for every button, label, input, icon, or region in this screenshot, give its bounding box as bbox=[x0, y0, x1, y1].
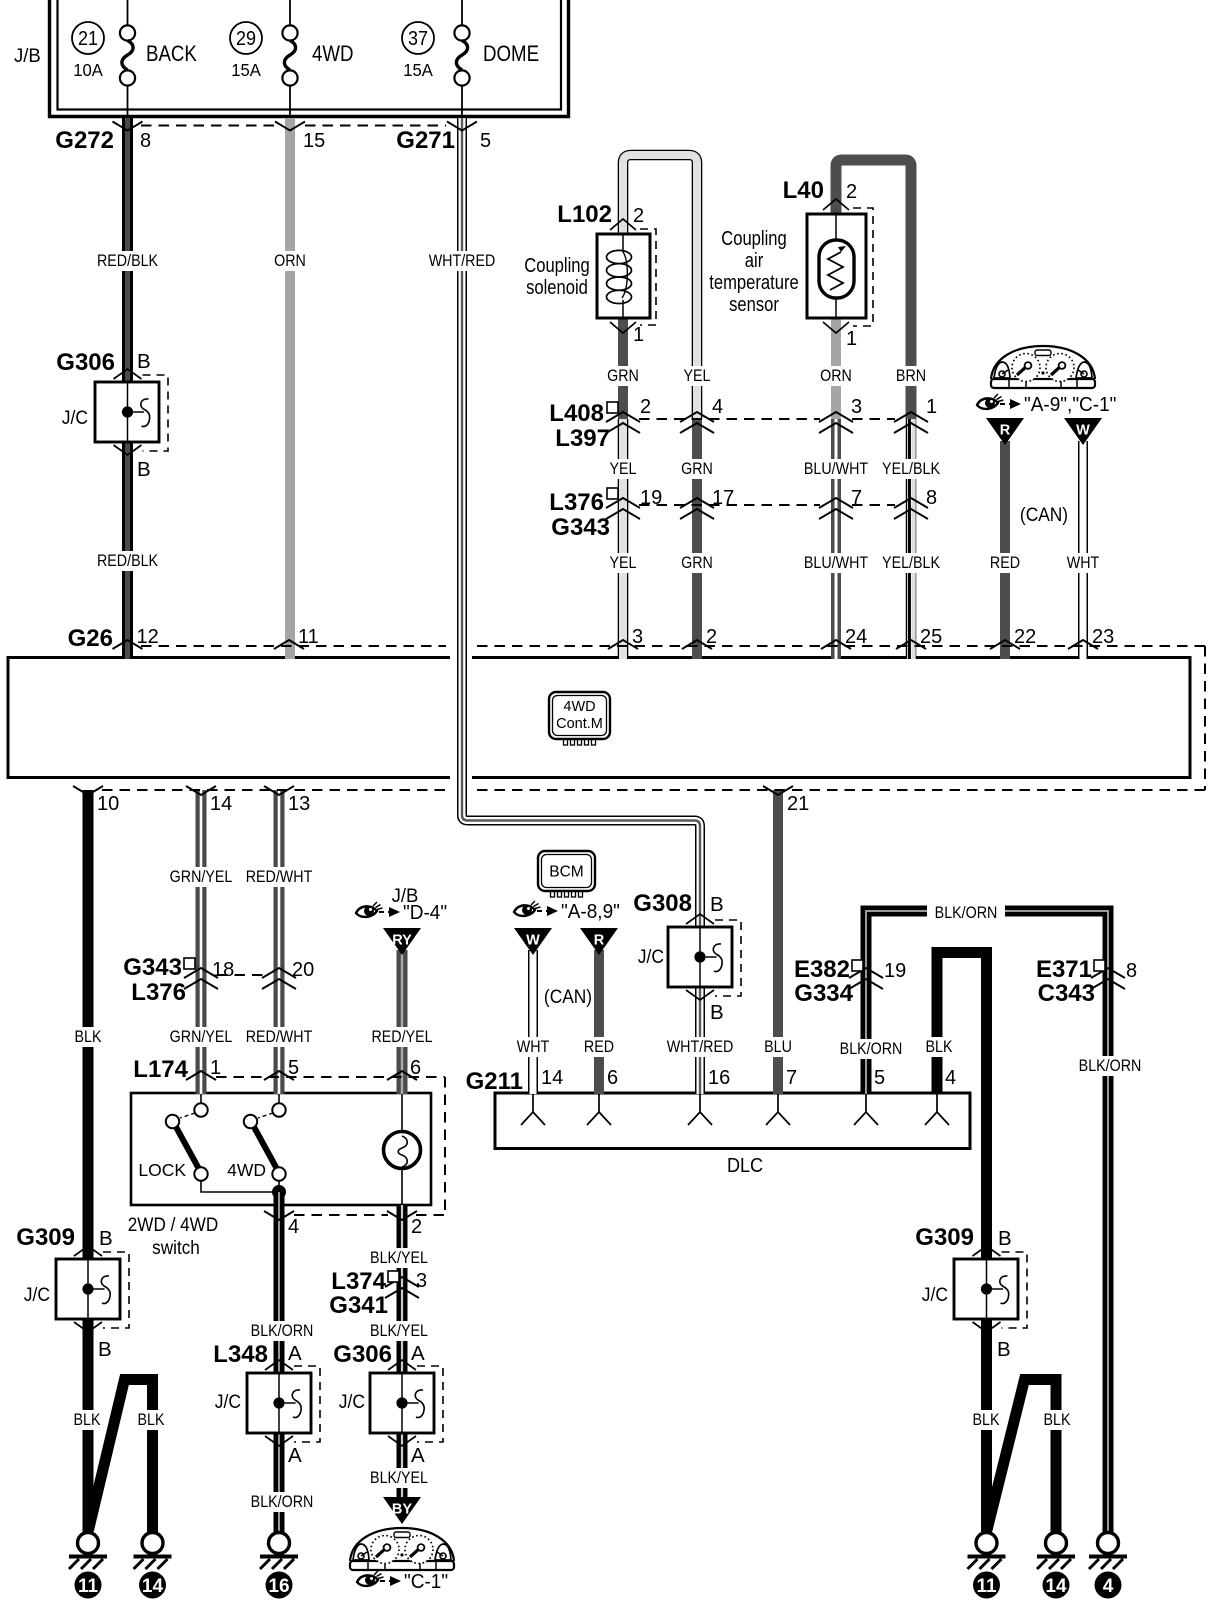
svg-text:B: B bbox=[997, 1338, 1011, 1361]
svg-text:20: 20 bbox=[292, 959, 314, 981]
svg-text:21: 21 bbox=[787, 793, 809, 815]
svg-text:19: 19 bbox=[640, 487, 662, 509]
wire label GRN/YEL lower bbox=[170, 1027, 233, 1047]
svg-text:ORN: ORN bbox=[820, 367, 852, 385]
svg-text:16: 16 bbox=[268, 1576, 289, 1597]
svg-text:BLK: BLK bbox=[926, 1038, 953, 1056]
connector G26 dashed boundary around module bbox=[102, 646, 1205, 790]
svg-text:2: 2 bbox=[633, 205, 644, 227]
connector L376 G343 pins 19 17 7 8 bbox=[549, 487, 937, 541]
wire BLK loop from DLC pin 4 to junction connector G309 and ground 11 bbox=[937, 953, 987, 1533]
svg-text:G272: G272 bbox=[55, 127, 114, 154]
wire label BRN above L408 bbox=[896, 366, 926, 386]
svg-text:37: 37 bbox=[408, 28, 428, 50]
svg-text:BLK/ORN: BLK/ORN bbox=[840, 1040, 903, 1058]
svg-text:L40: L40 bbox=[783, 177, 824, 204]
svg-text:11: 11 bbox=[78, 1576, 99, 1597]
svg-text:BACK: BACK bbox=[146, 43, 197, 67]
module pin 21 bbox=[763, 786, 809, 815]
svg-text:RY: RY bbox=[392, 933, 412, 949]
svg-text:22: 22 bbox=[1014, 626, 1036, 648]
svg-text:4WD: 4WD bbox=[563, 699, 595, 715]
svg-text:G334: G334 bbox=[794, 980, 853, 1007]
svg-text:air: air bbox=[745, 248, 763, 271]
svg-text:4WD: 4WD bbox=[227, 1160, 266, 1180]
coupling solenoid L102 bbox=[597, 219, 656, 333]
wire YEL/BLK from connector L408 pin 1 to module pin 25 bbox=[909, 419, 913, 659]
svg-text:4: 4 bbox=[288, 1216, 299, 1238]
4WD switch contact bbox=[227, 1093, 286, 1181]
wire GRN/YEL module pin 14 to switch pin 1 bbox=[196, 790, 207, 1094]
svg-text:WHT: WHT bbox=[1067, 554, 1100, 572]
svg-text:J/C: J/C bbox=[638, 945, 664, 967]
module pin 22 bbox=[990, 626, 1036, 649]
label Coupling air temperature sensor bbox=[709, 226, 798, 315]
svg-text:J/C: J/C bbox=[339, 1390, 365, 1412]
wire label BLK ground 11 right bbox=[972, 1410, 1001, 1430]
svg-text:BLK/YEL: BLK/YEL bbox=[370, 1249, 428, 1267]
svg-text:BLK/YEL: BLK/YEL bbox=[370, 1469, 428, 1487]
svg-text:WHT/RED: WHT/RED bbox=[429, 252, 496, 270]
svg-text:19: 19 bbox=[884, 960, 906, 982]
DLC internal branch pin bbox=[854, 1094, 878, 1125]
wire label BLK at DLC pin 4 loop bbox=[925, 1037, 954, 1057]
svg-text:BLU/WHT: BLU/WHT bbox=[804, 460, 869, 478]
svg-text:6: 6 bbox=[410, 1057, 421, 1079]
label Coupling solenoid bbox=[524, 253, 590, 298]
svg-text:25: 25 bbox=[920, 626, 942, 648]
svg-text:B: B bbox=[137, 350, 151, 373]
svg-text:B: B bbox=[710, 893, 724, 916]
wire label BLK/ORN right vertical bbox=[1079, 1056, 1142, 1076]
svg-text:WHT: WHT bbox=[517, 1038, 550, 1056]
svg-text:"A-8,9": "A-8,9" bbox=[561, 901, 620, 924]
ground 16 bbox=[260, 1533, 298, 1599]
connector E371 C343 pin 8 bbox=[1036, 956, 1137, 1007]
wire label BLU/WHT below L408 bbox=[804, 459, 869, 479]
ground 4 right bbox=[1089, 1533, 1127, 1599]
svg-text:L397: L397 bbox=[555, 425, 610, 452]
wire label GRN above L408 bbox=[607, 366, 639, 386]
svg-text:G306: G306 bbox=[333, 1341, 392, 1368]
ground 11 left bbox=[69, 1533, 107, 1599]
DLC internal branch pin bbox=[587, 1094, 611, 1125]
label L40 pin 2 pin 1 bbox=[783, 177, 857, 350]
svg-text:4: 4 bbox=[945, 1067, 956, 1089]
svg-text:1: 1 bbox=[210, 1057, 221, 1079]
junction connector G306 bottom bbox=[333, 1341, 443, 1467]
svg-text:7: 7 bbox=[851, 487, 862, 509]
svg-text:A: A bbox=[288, 1444, 302, 1467]
wire label GRN below L376 bbox=[681, 553, 713, 573]
svg-text:E382: E382 bbox=[794, 956, 850, 983]
module pin 3 bbox=[608, 626, 643, 649]
svg-text:A: A bbox=[411, 1342, 425, 1365]
connector G343 L376 pins 18 20 bbox=[123, 954, 314, 1006]
svg-text:11: 11 bbox=[976, 1576, 997, 1597]
ground 14 left bbox=[134, 1533, 172, 1599]
svg-text:W: W bbox=[526, 933, 540, 949]
svg-text:YEL: YEL bbox=[684, 367, 711, 385]
wire RED CAN from BCM to DLC pin 6 bbox=[594, 950, 604, 1094]
svg-text:10A: 10A bbox=[73, 61, 103, 80]
switch pin 4 and pin 2 bbox=[264, 1211, 422, 1238]
svg-text:6: 6 bbox=[607, 1067, 618, 1089]
wire label GRN/YEL upper bbox=[170, 867, 233, 887]
svg-text:BLK: BLK bbox=[973, 1411, 1000, 1429]
svg-text:18: 18 bbox=[212, 959, 234, 981]
svg-text:5: 5 bbox=[480, 130, 491, 152]
switch common junction node bbox=[272, 1181, 286, 1205]
connector E382 G334 pin 19 bbox=[794, 956, 906, 1007]
wire label BLU mid bbox=[764, 1037, 793, 1057]
svg-text:A: A bbox=[288, 1342, 302, 1365]
4WD control module box bbox=[8, 658, 1190, 778]
svg-text:29: 29 bbox=[236, 28, 256, 50]
svg-text:14: 14 bbox=[541, 1067, 563, 1089]
svg-text:R: R bbox=[1000, 423, 1011, 439]
svg-text:1: 1 bbox=[926, 396, 937, 418]
svg-text:BLU: BLU bbox=[764, 1038, 792, 1056]
svg-text:YEL: YEL bbox=[610, 460, 637, 478]
connector L408 L397 pins 2 4 3 1 bbox=[549, 396, 937, 452]
DLC internal branch pin bbox=[766, 1094, 790, 1125]
svg-text:temperature: temperature bbox=[709, 270, 798, 293]
fuse 29 15A 4WD bbox=[230, 0, 354, 116]
connector G211 label and pin numbers 14 6 16 7 5 4 bbox=[466, 1067, 957, 1095]
svg-text:24: 24 bbox=[845, 626, 867, 648]
svg-text:23: 23 bbox=[1092, 626, 1114, 648]
wire label YEL/BLK below L408 bbox=[881, 459, 940, 479]
connector L374 G341 pin 3 bbox=[329, 1268, 427, 1319]
svg-text:B: B bbox=[998, 1227, 1012, 1250]
wire label WHT/RED bbox=[429, 251, 496, 271]
svg-text:LOCK: LOCK bbox=[138, 1160, 186, 1180]
module pin 13 bbox=[264, 786, 310, 815]
4WD indicator lamp in switch bbox=[384, 1093, 421, 1205]
DLC data link connector box bbox=[495, 1093, 970, 1177]
CAN R triangle to module pin 22 bbox=[986, 418, 1024, 445]
fuse 37 15A DOME bbox=[402, 0, 539, 116]
svg-text:GRN/YEL: GRN/YEL bbox=[170, 868, 233, 886]
wire ORN from fuse 29 to module pin 11 bbox=[285, 118, 295, 659]
svg-text:C343: C343 bbox=[1038, 980, 1095, 1007]
svg-text:15A: 15A bbox=[231, 61, 261, 80]
svg-text:RED: RED bbox=[584, 1038, 614, 1056]
svg-text:14: 14 bbox=[1045, 1576, 1067, 1597]
wire BLK/ORN from DLC pin 5 over to ground 4 bbox=[866, 911, 1108, 1533]
wire label RED mid bbox=[584, 1037, 614, 1057]
junction connector G309 right bbox=[915, 1224, 1027, 1361]
svg-text:BLK/ORN: BLK/ORN bbox=[935, 904, 998, 922]
svg-text:J/C: J/C bbox=[922, 1283, 948, 1305]
module pin 14 bbox=[186, 786, 232, 815]
svg-text:15: 15 bbox=[303, 130, 325, 152]
svg-text:7: 7 bbox=[786, 1067, 797, 1089]
svg-text:RED: RED bbox=[990, 554, 1020, 572]
svg-text:L376: L376 bbox=[549, 489, 604, 516]
wire label BLK ground 11 left bbox=[73, 1410, 102, 1430]
BCM icon bbox=[538, 851, 595, 897]
svg-text:B: B bbox=[137, 458, 151, 481]
svg-text:A: A bbox=[411, 1444, 425, 1467]
ground 14 right bbox=[1037, 1533, 1075, 1599]
svg-text:14: 14 bbox=[210, 793, 232, 815]
svg-text:G309: G309 bbox=[915, 1224, 974, 1251]
wire label GRN below L408 bbox=[681, 459, 713, 479]
CAN W triangle to module pin 23 bbox=[1064, 418, 1102, 445]
wire label BLK/YEL above G306 bbox=[369, 1321, 428, 1341]
connector G272 pins 8 and 15, connector G271 pin 5 bbox=[55, 122, 491, 155]
ground 11 right bbox=[968, 1533, 1006, 1599]
wire BLU module pin 21 to DLC pin 7 bbox=[773, 790, 783, 1094]
svg-text:W: W bbox=[1076, 423, 1090, 439]
svg-text:"D-4": "D-4" bbox=[403, 902, 447, 925]
svg-text:8: 8 bbox=[926, 487, 937, 509]
wire label ORN above L408 bbox=[820, 366, 852, 386]
wire BLK jumper to ground 14 right bbox=[987, 1380, 1056, 1533]
wire label BLK/ORN horizontal bbox=[927, 903, 1005, 923]
svg-text:RED/WHT: RED/WHT bbox=[246, 868, 313, 886]
svg-text:BRN: BRN bbox=[896, 367, 926, 385]
svg-text:G26: G26 bbox=[68, 625, 113, 652]
LOCK switch contact bbox=[138, 1093, 273, 1192]
wire WHT CAN from instrument cluster to module pin 23 bbox=[1078, 441, 1088, 659]
svg-text:10: 10 bbox=[97, 793, 119, 815]
wire ORN from coupling air temperature sensor pin 1 to connector L408 pin 3 bbox=[831, 318, 841, 419]
instrument cluster icon top right bbox=[991, 346, 1095, 388]
svg-text:(CAN): (CAN) bbox=[1020, 503, 1068, 525]
svg-text:G309: G309 bbox=[16, 1224, 75, 1251]
junction connector G309 left bbox=[16, 1224, 129, 1361]
module pin 2 bbox=[682, 626, 717, 649]
wire label BLK left bbox=[74, 1027, 103, 1047]
wire WHT/RED from fuse 37 through module area to junction connector G308 and DLC pin 16 bbox=[450, 118, 700, 1094]
svg-text:BLK/YEL: BLK/YEL bbox=[370, 1322, 428, 1340]
svg-text:4: 4 bbox=[1103, 1576, 1114, 1597]
svg-text:GRN: GRN bbox=[681, 460, 713, 478]
module pin 10 bbox=[73, 786, 119, 815]
svg-text:11: 11 bbox=[298, 626, 319, 648]
svg-text:BLK/ORN: BLK/ORN bbox=[1079, 1057, 1142, 1075]
svg-text:4: 4 bbox=[712, 396, 723, 418]
junction block J/B box bbox=[14, 0, 570, 118]
connector L174 dashed boundary and pins 1 5 6 bbox=[133, 1056, 445, 1215]
svg-text:L174: L174 bbox=[133, 1056, 188, 1083]
junction connector L348 bbox=[213, 1341, 320, 1467]
svg-text:BLK: BLK bbox=[74, 1411, 101, 1429]
wire label BLK/YEL above L374 bbox=[369, 1248, 428, 1268]
wire BLK module pin 10 to ground bbox=[83, 790, 94, 1533]
svg-text:YEL: YEL bbox=[610, 554, 637, 572]
wire BLU/WHT from connector L408 pin 3 to module pin 24 bbox=[831, 419, 841, 659]
wire label BLK/ORN below L348 bbox=[251, 1492, 314, 1512]
svg-text:3: 3 bbox=[632, 626, 643, 648]
module pin 12 bbox=[113, 626, 159, 649]
svg-text:RED/WHT: RED/WHT bbox=[246, 1028, 313, 1046]
label CAN right bbox=[1020, 503, 1068, 525]
wire GRN from coupling solenoid pin 1 to connector L408 pin 2 bbox=[618, 318, 628, 419]
label CAN mid bbox=[544, 985, 592, 1007]
svg-text:BLK/ORN: BLK/ORN bbox=[251, 1493, 314, 1511]
wire label YEL above L408 bbox=[683, 366, 712, 386]
svg-text:3: 3 bbox=[416, 1270, 427, 1292]
svg-text:G306: G306 bbox=[56, 349, 115, 376]
svg-text:1: 1 bbox=[846, 328, 857, 350]
svg-text:3: 3 bbox=[851, 396, 862, 418]
svg-text:G211: G211 bbox=[466, 1068, 523, 1095]
svg-text:L408: L408 bbox=[549, 400, 604, 427]
4WD Cont.M icon bbox=[549, 692, 610, 745]
wire label RED/BLK lower bbox=[97, 551, 159, 571]
svg-text:RED/BLK: RED/BLK bbox=[97, 252, 159, 270]
svg-text:BLK: BLK bbox=[138, 1411, 165, 1429]
wire label BLK/ORN at DLC pin 5 bbox=[840, 1039, 903, 1059]
module pin 25 bbox=[896, 626, 942, 649]
DLC internal branch pin bbox=[688, 1094, 712, 1125]
svg-text:2WD / 4WD: 2WD / 4WD bbox=[128, 1213, 219, 1235]
svg-text:14: 14 bbox=[142, 1576, 164, 1597]
wire RED/BLK from fuse 21 to module pin 12 bbox=[122, 118, 133, 659]
svg-text:17: 17 bbox=[712, 487, 734, 509]
wire label BLK/ORN above L348 bbox=[251, 1321, 314, 1341]
svg-text:sensor: sensor bbox=[729, 292, 779, 315]
svg-text:WHT/RED: WHT/RED bbox=[667, 1038, 734, 1056]
svg-text:2: 2 bbox=[706, 626, 717, 648]
DLC internal branch pin bbox=[925, 1094, 949, 1125]
wire label RED/BLK bbox=[97, 251, 159, 271]
wire BRN loop from coupling air temperature sensor pin 2 to connector L408 pin 1 bbox=[836, 160, 911, 419]
svg-text:5: 5 bbox=[874, 1067, 885, 1089]
label L102 pin 2 pin 1 bbox=[557, 201, 644, 346]
wire label YEL below L408 bbox=[609, 459, 638, 479]
svg-text:R: R bbox=[594, 933, 605, 949]
svg-text:(CAN): (CAN) bbox=[544, 985, 592, 1007]
wire BLK/ORN from switch pin 4 to ground 16 bbox=[274, 1192, 285, 1533]
wire label WHT mid bbox=[517, 1037, 550, 1057]
wire label WHT/RED mid bbox=[667, 1037, 734, 1057]
svg-text:L376: L376 bbox=[131, 979, 186, 1006]
wire label BLK ground 14 right bbox=[1043, 1410, 1072, 1430]
svg-text:BLK: BLK bbox=[75, 1028, 102, 1046]
svg-text:J/C: J/C bbox=[62, 406, 88, 428]
svg-text:switch: switch bbox=[152, 1236, 200, 1258]
wire label WHT CAN bbox=[1067, 553, 1100, 573]
module pin 23 bbox=[1068, 626, 1114, 649]
svg-text:BCM: BCM bbox=[549, 864, 583, 881]
svg-text:DLC: DLC bbox=[727, 1155, 763, 1177]
svg-text:BY: BY bbox=[392, 1502, 412, 1518]
svg-text:ORN: ORN bbox=[274, 252, 306, 270]
svg-text:solenoid: solenoid bbox=[526, 275, 588, 298]
svg-text:5: 5 bbox=[288, 1057, 299, 1079]
module pin 11 bbox=[274, 626, 319, 649]
coupling air temperature sensor L40 bbox=[807, 199, 873, 333]
reference eye to C-1 bbox=[357, 1571, 448, 1594]
svg-text:RED/BLK: RED/BLK bbox=[97, 552, 159, 570]
svg-text:J/B: J/B bbox=[14, 46, 41, 68]
connector G26 label bbox=[68, 625, 113, 652]
svg-text:DOME: DOME bbox=[483, 43, 539, 67]
svg-text:8: 8 bbox=[1126, 960, 1137, 982]
svg-text:1: 1 bbox=[633, 324, 644, 346]
reference eye to A-8,9 bbox=[514, 901, 620, 924]
svg-text:GRN: GRN bbox=[681, 554, 713, 572]
svg-text:2: 2 bbox=[640, 396, 651, 418]
svg-text:8: 8 bbox=[140, 130, 151, 152]
BY triangle to instrument cluster bbox=[383, 1497, 421, 1524]
junction connector G306 top bbox=[56, 349, 168, 481]
CAN R triangle to DLC pin 6 bbox=[580, 928, 618, 955]
wire RED/WHT module pin 13 to switch pin 5 bbox=[274, 790, 285, 1094]
wire RED CAN from instrument cluster to module pin 22 bbox=[1000, 441, 1010, 659]
svg-text:Coupling: Coupling bbox=[524, 253, 590, 276]
wire label BLK/YEL below G306 bbox=[369, 1468, 428, 1488]
wire label ORN bbox=[274, 251, 306, 271]
junction connector G308 bbox=[633, 890, 741, 1024]
svg-text:RED/YEL: RED/YEL bbox=[371, 1028, 432, 1046]
module pin 24 bbox=[821, 626, 867, 649]
reference eye to A-9 C-1 bbox=[977, 394, 1116, 417]
wire label RED/WHT upper bbox=[246, 867, 313, 887]
svg-text:G343: G343 bbox=[123, 954, 182, 981]
wire label RED/WHT lower bbox=[246, 1027, 313, 1047]
wire label YEL below L376 bbox=[609, 553, 638, 573]
svg-text:E371: E371 bbox=[1036, 956, 1092, 983]
wire YEL from connector L408 pin 2 to module pin 3 bbox=[618, 419, 629, 659]
svg-text:GRN: GRN bbox=[607, 367, 639, 385]
svg-text:L374: L374 bbox=[331, 1268, 386, 1295]
svg-text:GRN/YEL: GRN/YEL bbox=[170, 1028, 233, 1046]
svg-text:"C-1": "C-1" bbox=[404, 1571, 448, 1594]
svg-text:B: B bbox=[99, 1227, 113, 1250]
svg-text:2: 2 bbox=[411, 1216, 422, 1238]
2WD/4WD switch box bbox=[128, 1093, 431, 1258]
svg-text:L102: L102 bbox=[557, 201, 612, 228]
RY triangle from J/B D-4 bbox=[383, 928, 421, 955]
svg-text:L348: L348 bbox=[213, 1341, 268, 1368]
wire label RED CAN bbox=[990, 553, 1020, 573]
fuse 21 10A BACK bbox=[72, 0, 197, 116]
wire YEL loop from coupling solenoid pin 2 to connector L408 pin 4 bbox=[623, 155, 697, 419]
svg-text:BLK: BLK bbox=[1044, 1411, 1071, 1429]
svg-text:G271: G271 bbox=[396, 127, 455, 154]
svg-text:G341: G341 bbox=[329, 1292, 388, 1319]
svg-text:J/C: J/C bbox=[215, 1390, 241, 1412]
wire label RED/YEL bbox=[371, 1027, 432, 1047]
svg-text:BLK/ORN: BLK/ORN bbox=[251, 1322, 314, 1340]
svg-text:B: B bbox=[98, 1338, 112, 1361]
wire label YEL/BLK below L376 bbox=[881, 553, 940, 573]
wire RED/YEL from J/B D-4 to switch pin 6 bbox=[397, 950, 408, 1094]
wire GRN from connector L408 pin 4 to module pin 2 bbox=[692, 419, 702, 659]
DLC internal branch pin bbox=[521, 1094, 545, 1125]
svg-text:YEL/BLK: YEL/BLK bbox=[882, 554, 940, 572]
wire label BLK ground 14 left bbox=[137, 1410, 166, 1430]
svg-text:13: 13 bbox=[288, 793, 310, 815]
svg-text:15A: 15A bbox=[403, 61, 433, 80]
svg-text:2: 2 bbox=[846, 181, 857, 203]
wire WHT CAN from BCM to DLC pin 14 bbox=[528, 950, 538, 1094]
svg-text:16: 16 bbox=[708, 1067, 730, 1089]
svg-text:21: 21 bbox=[78, 28, 98, 50]
svg-text:Cont.M: Cont.M bbox=[556, 716, 603, 732]
reference J/B eye to D-4 bbox=[356, 886, 447, 925]
wire label BLU/WHT below L376 bbox=[804, 553, 869, 573]
CAN W triangle to DLC pin 14 bbox=[514, 928, 552, 955]
svg-text:YEL/BLK: YEL/BLK bbox=[882, 460, 940, 478]
svg-text:"A-9","C-1": "A-9","C-1" bbox=[1024, 394, 1116, 417]
